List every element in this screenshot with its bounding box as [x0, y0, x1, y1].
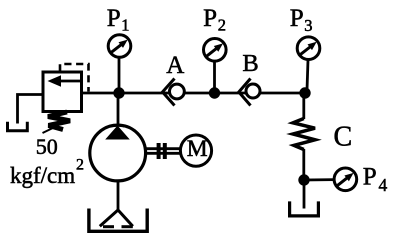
pump P [90, 125, 146, 181]
svg-text:50: 50 [36, 134, 58, 159]
wire main pressure line [81, 92, 305, 95]
svg-text:kgf/cm: kgf/cm [10, 163, 75, 188]
wire pump suction line [117, 181, 120, 211]
gauge P2 [204, 39, 227, 62]
wire gauge P2 stem [213, 61, 216, 93]
strainer S1 [100, 210, 133, 227]
relief valve V1 flow arrow [48, 75, 81, 87]
wire gauge P1 stem [118, 58, 121, 93]
svg-text:2: 2 [218, 16, 226, 35]
tank T1 (relief valve drain) [8, 122, 28, 131]
svg-text:3: 3 [304, 16, 312, 35]
label P4 [363, 164, 388, 196]
wire J4 down into tank [303, 180, 306, 209]
node J3 (P3 tap junction) [299, 87, 310, 98]
tank T2 (pump suction) [89, 209, 147, 232]
node J1 (P1 tap junction) [113, 87, 124, 98]
wire gauge P3 stem [307, 60, 308, 90]
svg-text:P: P [203, 5, 217, 32]
wire J3 down to load spring C [302, 93, 305, 119]
gauge P4 [334, 168, 357, 191]
shaft coupling pump-motor [146, 143, 180, 159]
svg-text:P: P [363, 164, 377, 191]
svg-text:4: 4 [379, 175, 388, 195]
check valve B [239, 79, 260, 106]
svg-text:2: 2 [76, 157, 84, 174]
relief valve V1 spring [43, 112, 71, 133]
motor M [180, 135, 211, 166]
label P2 [203, 5, 226, 34]
relief valve V1 pilot line (dashed) [60, 64, 89, 92]
wire relief valve drain to tank [18, 95, 44, 124]
svg-text:A: A [166, 52, 184, 79]
svg-text:B: B [242, 50, 258, 77]
load spring C [293, 119, 315, 150]
wire spring C to node J4 [302, 149, 305, 180]
label P3 [290, 5, 313, 35]
gauge P3 [297, 37, 320, 60]
label P1 [107, 5, 130, 34]
wire gauge P4 stem [304, 178, 334, 181]
node J4 (P4 tap junction) [298, 174, 309, 185]
tank T3 (load return) [290, 201, 319, 216]
svg-text:M: M [187, 136, 208, 162]
wire main line down to pump [117, 93, 120, 126]
svg-text:1: 1 [121, 15, 129, 34]
svg-text:P: P [290, 5, 304, 32]
node J2 (P2 tap junction) [209, 87, 220, 98]
svg-text:P: P [107, 5, 121, 32]
svg-text:C: C [334, 122, 353, 153]
relief valve V1 body [43, 72, 82, 112]
gauge P1 [108, 35, 131, 58]
check valve A [163, 79, 185, 106]
label 50 kgf/cm2 setting [10, 134, 84, 188]
